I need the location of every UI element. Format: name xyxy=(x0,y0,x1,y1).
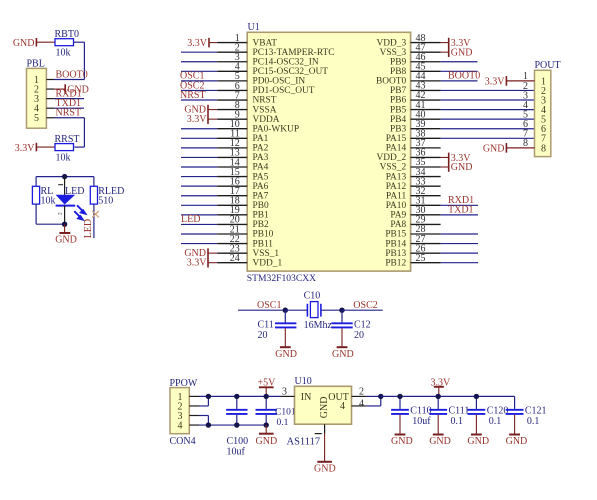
svg-text:PA13: PA13 xyxy=(386,172,407,182)
U1 right pin 31 PA10 xyxy=(386,195,441,211)
junction at LED anode xyxy=(62,174,67,179)
U1 left pin 4 PC15-OSC32_OUT xyxy=(217,62,328,77)
wire U1 pin 12 xyxy=(181,147,217,149)
svg-text:RRST: RRST xyxy=(55,134,80,145)
U1 right pin 32 PA11 xyxy=(386,186,441,202)
svg-text:NRST: NRST xyxy=(56,108,82,119)
svg-text:PB8: PB8 xyxy=(390,67,406,77)
U10 pin 3 IN xyxy=(281,386,312,402)
POUT pin 5 xyxy=(523,109,546,125)
svg-text:NRST: NRST xyxy=(180,90,206,101)
U1 left pin 18 PB0 xyxy=(217,196,269,211)
svg-text:GND: GND xyxy=(429,436,451,447)
wire PPOW pin 1 to U10 IN xyxy=(199,395,281,397)
power 3.3V at output rail xyxy=(431,377,452,396)
svg-text:GND: GND xyxy=(314,464,336,475)
svg-text:TXD1: TXD1 xyxy=(448,205,474,216)
U1 left pin 21 PB10 xyxy=(217,224,273,239)
U1 right pin 40 PB4 xyxy=(390,109,441,125)
svg-text:PB1: PB1 xyxy=(253,211,269,221)
svg-text:PA14: PA14 xyxy=(386,144,407,154)
U1 left pin 7 NRST xyxy=(217,90,277,105)
connector PPOW body xyxy=(170,388,189,434)
wire U1 pin 26 xyxy=(441,252,478,254)
POUT pin 7 xyxy=(523,129,546,145)
junction C101 bottom xyxy=(264,422,269,427)
ground GND below U10 xyxy=(314,434,336,475)
wire RL bottom xyxy=(35,204,37,224)
U1 right pin 28 PB15 xyxy=(385,224,440,240)
U1 left pin 23 VSS_1 xyxy=(217,243,279,258)
svg-text:PB14: PB14 xyxy=(385,239,406,249)
svg-text:LED: LED xyxy=(65,186,84,197)
ground GND below C11 xyxy=(275,328,297,360)
wire U1 pin 38 to POUT pin 8 xyxy=(441,137,535,139)
PPOW pin 3 xyxy=(178,411,200,422)
junction C111 top xyxy=(436,394,441,399)
wire U1 pin 27 xyxy=(441,243,478,245)
wire RBT0 to BOOT0 xyxy=(74,42,85,79)
LED D1 xyxy=(56,177,86,225)
svg-text:PB10: PB10 xyxy=(253,230,274,240)
capacitor C120 xyxy=(468,396,509,427)
svg-text:GND: GND xyxy=(451,162,473,173)
U1 right pin 41 PB5 xyxy=(390,100,441,116)
ground GND at resistor RBT0 xyxy=(13,38,55,49)
wire TXD1 at PBL pin 4 xyxy=(54,107,84,109)
svg-text:PD0-OSC_IN: PD0-OSC_IN xyxy=(253,77,306,87)
svg-text:PA0-WKUP: PA0-WKUP xyxy=(253,124,300,134)
U1 right pin 38 PA15 xyxy=(386,129,441,145)
svg-text:POUT: POUT xyxy=(535,60,561,71)
svg-text:GND: GND xyxy=(467,436,489,447)
svg-text:PB4: PB4 xyxy=(390,115,406,125)
svg-text:STM32F103CXX: STM32F103CXX xyxy=(247,273,316,284)
wire U1 pin 14 xyxy=(181,166,217,168)
svg-text:2: 2 xyxy=(359,386,364,397)
wire 3.3V output rail xyxy=(381,395,515,397)
ground GND below PPOW rail xyxy=(256,425,278,447)
svg-text:10uf: 10uf xyxy=(412,416,431,427)
wire U1 pin 42 to POUT pin 4 xyxy=(441,99,535,101)
ground GND below C110 xyxy=(391,415,413,447)
svg-text:C100: C100 xyxy=(227,436,249,447)
POUT pin 3 xyxy=(523,90,546,106)
svg-text:16Mhz: 16Mhz xyxy=(304,320,333,331)
wire U1 pin 19 xyxy=(181,214,217,216)
svg-text:PA8: PA8 xyxy=(390,220,406,230)
wire U1 pin 13 xyxy=(181,156,217,158)
U1 left pin 16 PA6 xyxy=(217,176,268,191)
svg-text:LED: LED xyxy=(83,219,94,238)
wire OSC2 to U1 pin 6 xyxy=(181,89,217,91)
svg-text:VDD_1: VDD_1 xyxy=(253,258,283,268)
U1 left pin 14 PA4 xyxy=(217,157,268,172)
U1 left pin 12 PA2 xyxy=(217,138,268,153)
svg-text:VDD_2: VDD_2 xyxy=(377,153,407,163)
junction at LED cathode xyxy=(62,222,67,227)
svg-text:VSSA: VSSA xyxy=(253,105,277,115)
capacitor C110 xyxy=(391,396,432,427)
resistor RBT0 xyxy=(55,29,79,59)
PBL pin 3 xyxy=(34,94,54,105)
capacitor C12 xyxy=(331,310,370,341)
svg-text:PA15: PA15 xyxy=(386,134,407,144)
U1 left pin 20 PB2 xyxy=(217,215,269,230)
U1 left pin 22 PB11 xyxy=(217,234,273,249)
wire U1 pin 2 xyxy=(181,51,217,53)
PPOW pin 1 xyxy=(178,392,200,403)
svg-text:3.3V: 3.3V xyxy=(485,76,506,87)
resistor RL xyxy=(32,186,55,207)
U1 left pin 17 PA7 xyxy=(217,186,268,201)
svg-text:PB11: PB11 xyxy=(253,239,274,249)
wire BOOT0 to PBL pin 1 xyxy=(54,79,84,81)
svg-text:C121: C121 xyxy=(525,406,547,417)
svg-text:PB0: PB0 xyxy=(253,201,269,211)
svg-text:PA3: PA3 xyxy=(253,153,269,163)
wire OSC1 xyxy=(238,309,285,311)
junction C100 top xyxy=(234,394,239,399)
U1 left pin 15 PA5 xyxy=(217,167,268,182)
U1 left pin 11 PA1 xyxy=(217,129,268,144)
junction C101 top xyxy=(264,394,269,399)
svg-text:PB5: PB5 xyxy=(390,105,406,115)
svg-text:AS1117: AS1117 xyxy=(287,437,321,448)
junction at crystal left xyxy=(283,308,288,313)
ground GND at U1 pin 23 xyxy=(184,248,217,268)
crystal C10 xyxy=(304,291,333,332)
power 3.3V at U1 pin 9 xyxy=(187,114,217,125)
wire PPOW pin 4 rail xyxy=(199,424,266,426)
junction U10 out xyxy=(378,394,383,399)
svg-text:PB15: PB15 xyxy=(385,230,406,240)
U1 left pin 24 VDD_1 xyxy=(217,253,282,268)
connector PBL body xyxy=(27,68,47,128)
svg-text:PB2: PB2 xyxy=(253,220,269,230)
svg-text:GND: GND xyxy=(332,349,354,360)
U1 left pin 9 VDDA xyxy=(217,109,280,124)
wire U1 pin 21 xyxy=(181,233,217,235)
regulator U10 body xyxy=(295,386,352,424)
junction C120 top xyxy=(474,394,479,399)
PPOW pin 4 xyxy=(178,420,200,431)
svg-text:0.1: 0.1 xyxy=(489,416,502,427)
U1 right pin 30 PA9 xyxy=(390,205,440,221)
svg-text:10uf: 10uf xyxy=(227,446,246,457)
svg-text:10k: 10k xyxy=(56,48,71,59)
svg-text:NRST: NRST xyxy=(253,96,277,106)
svg-text:PA10: PA10 xyxy=(386,201,407,211)
ground GND at PBL pin 2 xyxy=(54,84,89,95)
svg-text:10k: 10k xyxy=(41,196,56,207)
U1 right pin 39 PB3 xyxy=(390,119,441,134)
ground GND below LED xyxy=(55,224,77,245)
capacitor C121 xyxy=(506,396,547,427)
wire U1 pin 18 xyxy=(181,204,217,206)
PBL pin 1 xyxy=(34,75,54,86)
svg-text:4: 4 xyxy=(178,420,183,431)
svg-text:0.1: 0.1 xyxy=(527,416,540,427)
wire LED bottom rail xyxy=(36,223,65,225)
connector POUT body xyxy=(535,70,551,156)
svg-text:C111: C111 xyxy=(449,406,470,417)
U1 left pin 5 PD0-OSC_IN xyxy=(217,71,305,86)
U1 right pin 44 BOOT0 xyxy=(376,71,441,87)
POUT pin 2 xyxy=(523,81,546,97)
svg-text:C10: C10 xyxy=(304,291,321,302)
svg-text:3.3V: 3.3V xyxy=(187,258,208,269)
svg-text:GND: GND xyxy=(391,436,413,447)
svg-text:PB7: PB7 xyxy=(390,86,406,96)
svg-text:C110: C110 xyxy=(410,406,431,417)
PBL pin 2 xyxy=(34,84,54,95)
ground GND at POUT pin 8 xyxy=(483,143,507,154)
svg-text:GND: GND xyxy=(55,235,77,246)
ground GND at U1 pin 35 xyxy=(441,162,473,173)
U1 left pin 10 PA0-WKUP xyxy=(217,119,299,134)
svg-text:OSC1: OSC1 xyxy=(257,300,281,311)
capacitor C111 xyxy=(429,396,469,427)
capacitor C101 xyxy=(256,396,296,427)
svg-text:3.3V: 3.3V xyxy=(187,38,208,49)
svg-text:PA11: PA11 xyxy=(386,191,406,201)
ground GND below C121 xyxy=(506,415,528,447)
ground GND at U1 pin 8 xyxy=(184,104,217,124)
U1 right pin 45 PB8 xyxy=(390,62,441,78)
junction PPOW pins 3-4 xyxy=(206,422,211,427)
junction C110 top xyxy=(397,394,402,399)
U1 right pin 37 PA14 xyxy=(386,138,441,154)
svg-text:PB6: PB6 xyxy=(390,96,406,106)
U1 right pin 43 PB7 xyxy=(390,81,441,97)
wire RXD1 at PBL pin 3 xyxy=(54,98,84,100)
svg-text:25: 25 xyxy=(416,253,426,264)
U1 left pin 6 PD1-OSC_OUT xyxy=(217,81,315,96)
svg-text:0.1: 0.1 xyxy=(451,416,464,427)
wire U1 pin 46 xyxy=(441,61,478,63)
wire U1 pin 4 xyxy=(181,70,217,72)
wire U1 pin 22 xyxy=(181,243,217,245)
PBL pin 4 xyxy=(34,104,54,115)
svg-text:VSS_2: VSS_2 xyxy=(380,163,407,173)
U1 right pin 34 PA13 xyxy=(386,167,441,183)
wire RXD1 at U1 pin 31 xyxy=(441,204,478,206)
U1 right pin 47 VSS_3 xyxy=(380,42,441,58)
U1 left pin 19 PB1 xyxy=(217,205,269,220)
U1 right pin 29 PA8 xyxy=(390,215,440,231)
wire NRST to U1 pin 7 xyxy=(181,99,217,101)
U1 right pin 25 PB12 xyxy=(385,253,440,269)
POUT pin 8 xyxy=(506,138,546,154)
svg-text:PPOW: PPOW xyxy=(170,378,198,389)
svg-text:PA4: PA4 xyxy=(253,163,269,173)
svg-text:GND: GND xyxy=(275,349,297,360)
ground GND below C111 xyxy=(429,415,451,447)
svg-text:PC13-TAMPER-RTC: PC13-TAMPER-RTC xyxy=(253,48,335,58)
svg-text:PB3: PB3 xyxy=(390,124,406,134)
resistor RRST xyxy=(55,134,80,164)
svg-text:VBAT: VBAT xyxy=(253,38,278,48)
svg-text:4: 4 xyxy=(340,401,345,412)
svg-text:20: 20 xyxy=(354,330,364,341)
wire LED to U1 pin 20 xyxy=(181,223,217,225)
POUT pin 4 xyxy=(523,100,546,116)
svg-text:U10: U10 xyxy=(295,376,312,387)
wire crystal left xyxy=(285,309,307,311)
wire U10 pin 2 out xyxy=(366,395,381,397)
svg-text:PD1-OSC_OUT: PD1-OSC_OUT xyxy=(253,86,315,96)
svg-text:U1: U1 xyxy=(248,22,260,33)
power +5V xyxy=(258,377,277,396)
svg-text:PB13: PB13 xyxy=(385,249,406,259)
wire U1 pin 25 xyxy=(441,262,478,264)
svg-text:5: 5 xyxy=(34,113,39,124)
wire NRST PBL pin 5 to RRST xyxy=(54,118,84,147)
svg-text:GND: GND xyxy=(506,436,528,447)
svg-text:2: 2 xyxy=(57,212,63,215)
POUT pin 6 xyxy=(523,119,546,135)
wire PPOW pin 3 join xyxy=(199,416,208,426)
U1 left pin 2 PC13-TAMPER-RTC xyxy=(217,42,334,57)
svg-text:PC15-OSC32_OUT: PC15-OSC32_OUT xyxy=(253,67,329,77)
U1 left pin 13 PA3 xyxy=(217,148,268,163)
svg-text:PA1: PA1 xyxy=(253,134,269,144)
svg-text:VDDA: VDDA xyxy=(253,115,280,125)
U1 right pin 36 VDD_2 xyxy=(377,148,441,164)
U10 GND pin xyxy=(315,424,325,433)
wire U1 pin 28 xyxy=(441,233,478,235)
wire U1 pin 3 xyxy=(181,61,217,63)
wire BOOT0 at U1 pin 44 xyxy=(441,80,478,82)
wire U1 pin 40 to POUT pin 6 xyxy=(441,118,535,120)
power 3.3V at resistor RRST xyxy=(15,143,55,154)
svg-text:RBT0: RBT0 xyxy=(55,29,79,40)
svg-text:GND: GND xyxy=(483,143,505,154)
svg-text:3: 3 xyxy=(282,386,287,397)
wire U1 pin 45 xyxy=(441,70,478,72)
U10 pin 4 xyxy=(340,398,366,412)
ground GND at U1 pin 47 xyxy=(441,47,473,58)
svg-text:VDD_3: VDD_3 xyxy=(377,38,407,48)
svg-text:24: 24 xyxy=(230,253,240,264)
svg-text:PC14-OSC32_IN: PC14-OSC32_IN xyxy=(253,57,319,67)
U1 left pin 1 VBAT xyxy=(217,33,277,48)
svg-text:PA2: PA2 xyxy=(253,144,269,154)
U1 right pin 42 PB6 xyxy=(390,90,441,106)
U1 right pin 48 VDD_3 xyxy=(377,33,441,49)
resistor RLED xyxy=(90,186,124,207)
svg-text:C11: C11 xyxy=(258,320,274,331)
junction at crystal right xyxy=(339,308,344,313)
svg-text:BOOT0: BOOT0 xyxy=(448,71,480,82)
svg-text:PB12: PB12 xyxy=(385,258,406,268)
svg-text:20: 20 xyxy=(258,330,268,341)
no-ERC cross on LED net xyxy=(92,211,99,218)
svg-text:PA9: PA9 xyxy=(390,211,406,221)
wire U1 pin 39 to POUT pin 7 xyxy=(441,128,535,130)
svg-text:10k: 10k xyxy=(56,153,71,164)
svg-text:VSS_1: VSS_1 xyxy=(253,249,280,259)
svg-text:CON4: CON4 xyxy=(170,436,196,447)
wire OSC1 to U1 pin 5 xyxy=(181,80,217,82)
wire U1 pin 41 to POUT pin 5 xyxy=(441,109,535,111)
U1 right pin 27 PB14 xyxy=(385,234,440,250)
wire U10 pin 4 up xyxy=(366,396,381,406)
svg-text:PA7: PA7 xyxy=(253,191,269,201)
U10 pin 2 OUT xyxy=(328,386,366,403)
svg-text:OSC2: OSC2 xyxy=(353,300,377,311)
junction C100 bottom xyxy=(234,422,239,427)
capacitor C100 xyxy=(226,396,248,457)
svg-text:PA6: PA6 xyxy=(253,182,269,192)
svg-text:3.3V: 3.3V xyxy=(15,143,36,154)
svg-text:LED: LED xyxy=(181,214,200,225)
svg-text:510: 510 xyxy=(98,196,113,207)
junction PPOW pins 1-2 xyxy=(206,394,211,399)
svg-text:GND: GND xyxy=(13,38,35,49)
svg-text:PA12: PA12 xyxy=(386,182,407,192)
ground GND below C12 xyxy=(332,328,354,360)
svg-text:GND: GND xyxy=(451,47,473,58)
POUT pin 1 xyxy=(506,71,546,87)
capacitor C11 xyxy=(258,310,297,341)
svg-text:C101: C101 xyxy=(275,408,296,418)
svg-text:BOOT0: BOOT0 xyxy=(376,77,407,87)
svg-text:3.3V: 3.3V xyxy=(187,114,208,125)
power 3.3V at POUT pin 1 xyxy=(485,76,507,87)
PBL pin 5 xyxy=(34,113,54,124)
U1 left pin 8 VSSA xyxy=(217,100,276,115)
svg-text:C12: C12 xyxy=(354,320,371,331)
wire U1 pin 17 xyxy=(181,195,217,197)
wire crystal right xyxy=(321,309,342,311)
svg-text:VSS_3: VSS_3 xyxy=(380,48,407,58)
svg-text:8: 8 xyxy=(523,138,528,149)
svg-text:OUT: OUT xyxy=(328,392,349,403)
svg-text:8: 8 xyxy=(541,143,546,154)
power 3.3V at U1 pin 48 xyxy=(441,38,472,57)
U1 right pin 33 PA12 xyxy=(386,176,441,192)
svg-text:GND: GND xyxy=(256,436,278,447)
svg-text:PBL: PBL xyxy=(27,59,45,70)
svg-text:BOOT0: BOOT0 xyxy=(56,69,88,80)
U1 right pin 26 PB13 xyxy=(385,243,440,259)
svg-text:PA5: PA5 xyxy=(253,172,269,182)
power 3.3V at U1 pin 24 xyxy=(187,258,217,269)
IC U1 STM32F103CXX body xyxy=(247,32,410,271)
svg-text:IN: IN xyxy=(301,392,312,403)
wire LED top rail xyxy=(36,177,94,187)
svg-text:PB9: PB9 xyxy=(390,57,406,67)
U1 right pin 35 VSS_2 xyxy=(380,157,441,173)
U1 right pin 46 PB9 xyxy=(390,52,441,68)
svg-text:4: 4 xyxy=(359,398,364,409)
U1 left pin 3 PC14-OSC32_IN xyxy=(217,52,319,67)
PPOW pin 2 xyxy=(178,401,200,412)
wire U1 pin 11 xyxy=(181,137,217,139)
power 3.3V at U1 pin 1 xyxy=(187,38,217,49)
wire PPOW pin 2 join xyxy=(199,396,208,406)
wire U1 pin 43 to POUT pin 3 xyxy=(441,89,535,91)
wire U1 pin 16 xyxy=(181,185,217,187)
ground GND below C120 xyxy=(467,415,489,447)
svg-text:C120: C120 xyxy=(487,406,509,417)
wire TXD1 at U1 pin 30 xyxy=(441,214,478,216)
wire U1 pin 10 xyxy=(181,128,217,130)
power 3.3V at U1 pin 36 xyxy=(441,153,472,172)
wire U1 pin 15 xyxy=(181,176,217,178)
